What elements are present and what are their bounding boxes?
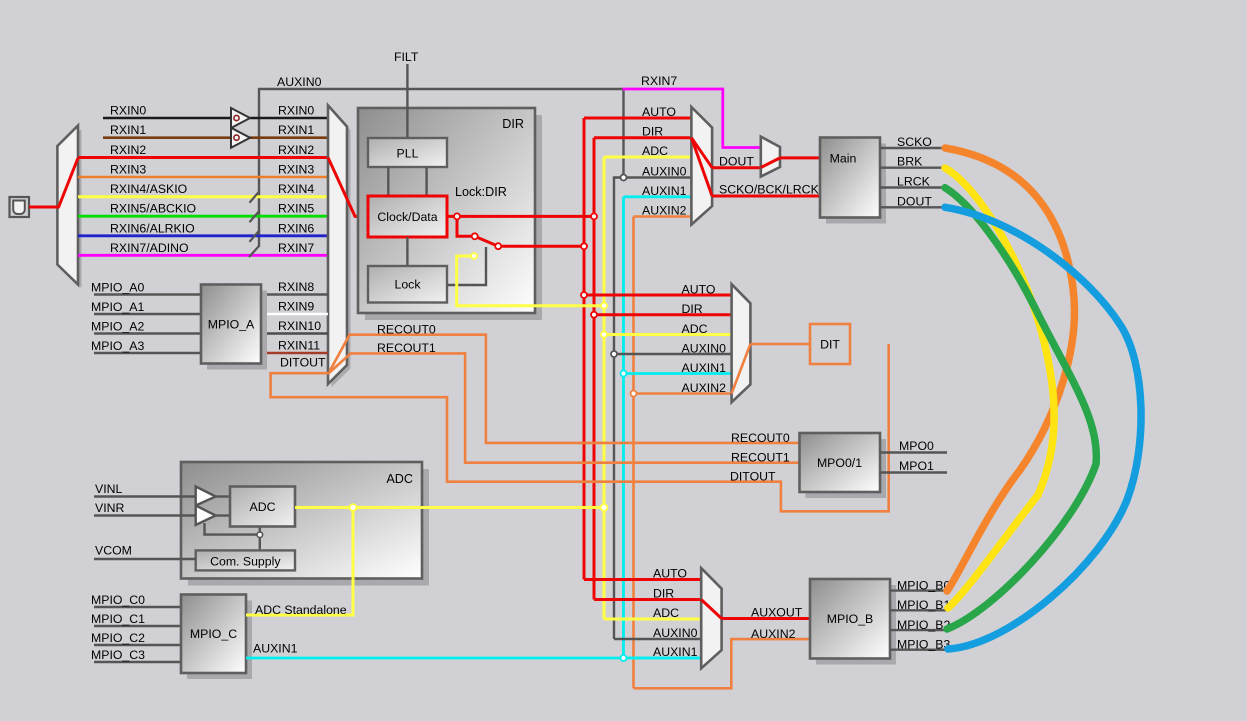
block PLL [368,138,447,167]
mux M3 (DIT source select) [732,284,751,402]
svg-text:Clock/Data: Clock/Data [377,210,437,224]
wire MPIO_A3 input stub [94,352,201,354]
block MPO0/1 [806,439,887,498]
node yellow junction ADC bus at ADC output [601,504,608,511]
node cyan junction AUXIN1 bottom [621,655,627,661]
wire red DOUT row [712,166,761,169]
wire magenta RXIN7 to bypass mux [623,89,762,148]
wire red DIR clock output (Clock/Data to DIR bus) [447,215,594,218]
wire MPIO_A0 input stub [94,293,201,295]
wire RXIN0 row [103,117,231,120]
svg-text:RECOUT0: RECOUT0 [377,323,436,337]
wire RXIN9 row (MPIO_A to mux) [261,313,328,316]
node: open circle on supply line [257,532,263,538]
svg-text:DITOUT: DITOUT [730,470,776,484]
wire red M2 output to Main [780,156,820,159]
wire RECOUT1 from big mux to MPO0/1 [330,353,800,462]
svg-text:MPIO_B1: MPIO_B1 [897,598,950,612]
svg-text:RXIN5: RXIN5 [278,202,314,216]
big input mux (RXIN selector) [332,109,351,387]
svg-text:FILT: FILT [394,50,419,64]
wire RXIN11 row (MPIO_A to mux) [261,352,328,355]
wire MPIO_C0 input stub [94,606,181,608]
wire BRK output stub [880,166,946,168]
svg-text:BRK: BRK [897,155,923,169]
wire AUXIN0 row into top mux [624,176,693,178]
wire VINL amp to ADC core [216,495,231,497]
svg-text:PLL: PLL [397,147,419,161]
wire MPIO_C1 input stub [94,625,181,627]
block Com. Supply [196,550,295,570]
bus red DIR vertical [593,138,596,600]
wire red selected path inside big mux: RXIN2 to DIR input [328,158,368,217]
wire cyan AUXIN1 from MPIO_C to bottom mux [246,657,701,660]
mux M2 (DOUT bypass select) [761,137,780,177]
block ADC (outer) [188,469,429,586]
node yellow junction ADC bus middle mux [601,332,607,338]
svg-text:ADC: ADC [250,500,276,514]
svg-text:DIR: DIR [682,302,703,316]
node orange junction AUXIN2 middle mux [631,391,637,397]
node: yellow open circle near switch [471,253,477,259]
svg-text:Lock: Lock [395,278,422,292]
svg-text:ADC: ADC [682,322,708,336]
svg-text:MPIO_C3: MPIO_C3 [91,648,145,662]
node gray junction AUXIN0 middle mux [611,351,617,357]
svg-text:RXIN10: RXIN10 [278,319,321,333]
wire MPO0 output stub [880,451,947,453]
svg-text:DITOUT: DITOUT [280,356,326,370]
wire DITOUT loop from DIT output to big mux [271,344,889,511]
wire ADC row into bottom mux [604,618,702,621]
wire ADC row into top mux [604,156,692,159]
svg-text:RXIN8: RXIN8 [278,280,314,294]
wire yellow ADC output to bus [295,506,604,509]
svg-text:LRCK: LRCK [897,175,931,189]
node: switch throw circle [495,243,501,249]
bus yellow ADC vertical [603,157,606,619]
svg-text:MPIO_B: MPIO_B [827,612,873,626]
wire FILT to PLL [406,64,408,139]
wire MPIO_A2 input stub [94,332,201,334]
svg-text:AUTO: AUTO [682,283,716,297]
wire red selected inside mux M2 [761,158,780,168]
wire yellow ADC Standalone from MPIO_C [246,508,353,616]
wire red switch branch down [457,216,471,236]
bus orange AUXIN2 vertical [632,217,635,689]
svg-text:MPIO_B3: MPIO_B3 [897,638,950,652]
wire MPIO_C3 input stub [94,661,181,663]
svg-text:RECOUT1: RECOUT1 [731,451,790,465]
node gray junction AUXIN0 top [621,175,627,181]
svg-text:VINR: VINR [95,501,124,515]
wire VINR stub [94,514,196,516]
wire RXIN3 row [78,176,328,179]
svg-text:MPIO_C2: MPIO_C2 [91,631,145,645]
wire thick green loop LRCK to MPIO_B2 [945,188,1096,629]
wire MPIO_B3 output stub [890,649,946,651]
block Lock [368,266,447,303]
svg-text:RXIN4: RXIN4 [278,182,314,196]
svg-text:DIR: DIR [653,586,674,600]
wire VCOM stub [94,558,196,560]
buffer U2 on RXIN0 [231,108,250,128]
wire ADC core to Com. Supply [259,527,261,552]
wire red AUTO output from switch [498,245,584,248]
wire red selected DIR to SCKO inside mux M1 [691,138,712,196]
wire RXIN6 row [78,234,328,237]
node: open circle on Clock/Data output [454,213,460,219]
wire RXIN10 row (MPIO_A to mux) [261,332,328,335]
svg-text:DOUT: DOUT [719,155,754,169]
svg-text:ADC: ADC [653,606,679,620]
svg-text:MPIO_C0: MPIO_C0 [91,593,145,607]
wire AUXIN0 row into bottom mux [614,638,702,640]
wire MPIO_A1 input stub [94,313,201,315]
svg-text:RXIN9: RXIN9 [278,300,314,314]
wire RXIN1 row [103,136,231,139]
wire AUXIN2 row into middle mux [634,392,733,395]
wire AUXIN0 crossover hops [250,192,260,203]
wire AUXIN0 row into middle mux [614,353,732,355]
wire thick orange loop SCKO to MPIO_B0 [945,148,1074,591]
wire red AUXOUT to MPIO_B [722,617,810,620]
svg-text:AUXOUT: AUXOUT [751,606,803,620]
block ADC core [230,487,295,527]
wire red SCKO/BCK/LRCK row [712,195,820,198]
node red junction AUTO bus middle mux [581,292,587,298]
wire VINR amp to ADC core [216,514,231,516]
wire AUXIN0 vertical drop to top mux [622,89,624,178]
svg-text:RXIN1: RXIN1 [278,123,314,137]
svg-text:AUXIN0: AUXIN0 [682,342,727,356]
wire AUXIN1 row into middle mux [624,372,733,375]
svg-text:VCOM: VCOM [95,544,132,558]
node: switch pivot circle [472,233,478,239]
svg-text:AUXIN0: AUXIN0 [653,626,698,640]
block MPIO_A [207,291,267,370]
svg-text:RXIN6: RXIN6 [278,221,314,235]
wire AUTO row into middle mux [584,294,732,297]
mux M4 (AUXOUT select) [701,568,721,668]
svg-text:AUXIN1: AUXIN1 [653,645,698,659]
wire DIR row into top mux [594,136,692,139]
wire amp bias feedback [205,523,258,535]
block DIT [810,324,850,364]
buffer VINR amp [196,506,216,526]
node yellow junction ADC output at standalone [350,504,357,511]
wire MPIO_B2 output stub [890,629,946,631]
svg-text:ADC: ADC [642,144,668,158]
svg-text:AUXIN0: AUXIN0 [642,165,687,179]
wire thick blue loop DOUT to MPIO_B3 [945,207,1141,649]
buffer VINL amp [196,487,216,506]
svg-text:ADC Standalone: ADC Standalone [255,603,347,617]
block DIR (outer) [365,115,542,320]
node cyan junction AUXIN1 middle mux [621,371,627,377]
wire RXIN5 row [78,215,328,218]
wire RXIN8 row (MPIO_A to mux) [261,293,328,295]
svg-text:Main: Main [830,152,857,166]
svg-text:RXIN3: RXIN3 [110,163,146,177]
wire AUTO row into top mux [584,117,692,120]
wire MPO1 output stub [880,471,947,473]
wire LRCK output stub [880,186,946,188]
svg-text:RXIN6/ALRKIO: RXIN6/ALRKIO [110,221,195,235]
wire AUTO row into bottom mux [584,578,702,581]
wire RECOUT0 from big mux to MPO0/1 [330,335,800,443]
node red junction DIR bus middle mux [591,312,597,318]
svg-text:AUXIN2: AUXIN2 [642,204,687,218]
block MPIO_B [816,585,896,665]
wire ADC row into middle mux [604,333,732,336]
svg-text:DOUT: DOUT [897,194,932,208]
svg-text:RXIN7: RXIN7 [641,74,677,88]
input selector trapezoid (left demux) [61,129,82,288]
wire RXIN2 row [78,156,328,159]
wire orange AUXIN2 wrap to MPIO_B [634,639,811,688]
svg-text:SCKO/BCK/LRCK: SCKO/BCK/LRCK [719,183,820,197]
block MPIO_C [187,601,252,680]
wire red: connector to selector, selects RXIN2 [29,158,78,207]
bus red AUTO vertical [583,118,586,580]
svg-text:MPIO_B0: MPIO_B0 [897,578,950,592]
bus gray AUXIN0 vertical [614,178,624,640]
connector J1 (optical input) [10,197,30,217]
wire MPIO_C2 input stub [94,644,181,646]
svg-text:VINL: VINL [95,482,122,496]
svg-text:MPIO_A0: MPIO_A0 [91,281,144,295]
switch SW1 arm (open) [475,236,499,246]
svg-text:SCKO: SCKO [897,135,932,149]
wire AUXIN2 row into top mux [634,215,693,218]
svg-text:RXIN4/ASKIO: RXIN4/ASKIO [110,182,187,196]
svg-text:AUXIN2: AUXIN2 [751,627,796,641]
svg-text:RXIN1: RXIN1 [110,123,146,137]
svg-text:RXIN7/ADINO: RXIN7/ADINO [110,241,189,255]
wire SCKO output stub [880,147,946,149]
svg-text:RXIN5/ABCKIO: RXIN5/ABCKIO [110,202,196,216]
wire PLL to Clock/Data left [387,167,389,197]
svg-text:AUXIN2: AUXIN2 [682,381,727,395]
wire PLL to Clock/Data right [425,167,427,197]
svg-text:MPIO_A1: MPIO_A1 [91,300,144,314]
wire red selected DIR to DOUT inside mux M1 [691,138,712,168]
wire MPIO_B0 output stub [890,589,946,591]
node yellow junction ADC bus at lock line [601,303,607,309]
svg-text:MPIO_A2: MPIO_A2 [91,320,144,334]
svg-text:DIT: DIT [820,338,840,352]
svg-text:RXIN0: RXIN0 [278,104,314,118]
wire DOUT output stub [880,206,946,208]
svg-text:MPO1: MPO1 [899,459,934,473]
wire Lock feedback to switch [447,247,486,285]
bus cyan AUXIN1 vertical [622,197,625,658]
wire AUXIN1 row into top mux [624,195,693,198]
node red junction DIR bus at clock output [591,213,597,219]
wire orange M3 output to DIT [750,343,810,346]
svg-text:MPIO_A3: MPIO_A3 [91,339,144,353]
wire VINL stub [94,495,196,497]
svg-text:MPIO_B2: MPIO_B2 [897,618,950,632]
buffer U3 on RXIN1 [231,128,250,148]
svg-text:RXIN2: RXIN2 [110,143,146,157]
wire yellow Lock sample to ADC bus [457,256,604,306]
wire Clock/Data to Lock [406,237,408,267]
svg-text:RECOUT0: RECOUT0 [731,431,790,445]
svg-text:RXIN2: RXIN2 [278,143,314,157]
svg-text:AUXIN1: AUXIN1 [642,184,687,198]
node red junction AUTO bus at switch output [581,243,587,249]
svg-text:RXIN3: RXIN3 [278,163,314,177]
svg-text:AUXIN1: AUXIN1 [253,642,298,656]
svg-text:Lock:DIR: Lock:DIR [455,185,507,199]
svg-text:MPIO_A: MPIO_A [208,318,255,332]
svg-text:MPO0/1: MPO0/1 [817,456,862,470]
svg-text:MPIO_C1: MPIO_C1 [91,612,145,626]
svg-text:RECOUT1: RECOUT1 [377,341,436,355]
block Main [826,144,886,224]
wire red selected DIR inside mux M4 [701,600,721,619]
svg-text:Com. Supply: Com. Supply [210,554,281,568]
block Clock/Data [368,196,447,237]
mux M1 (main source select) [691,107,712,225]
wire RXIN7 row [78,254,328,257]
wire DIR row into bottom mux [594,598,702,601]
wire thick yellow loop BRK to MPIO_B1 [945,168,1054,608]
svg-text:AUXIN1: AUXIN1 [682,361,727,375]
svg-text:ADC: ADC [386,472,413,486]
svg-text:RXIN7: RXIN7 [278,241,314,255]
svg-text:RXIN11: RXIN11 [278,339,320,353]
svg-text:RXIN0: RXIN0 [110,104,146,118]
wire AUXIN0 top feed [259,89,624,247]
svg-text:AUTO: AUTO [642,105,676,119]
svg-text:DIR: DIR [642,125,663,139]
wire AUXIN1 row into bottom mux [624,657,702,660]
wire DIR row into middle mux [594,313,732,316]
wire MPIO_B1 output stub [890,609,946,611]
svg-text:DIR: DIR [502,117,524,131]
wire RXIN4 row [78,195,328,198]
wire orange selected AUXIN2 inside mux M3 [732,344,751,394]
svg-text:MPO0: MPO0 [899,439,934,453]
svg-text:MPIO_C: MPIO_C [190,627,237,641]
svg-text:AUXIN0: AUXIN0 [277,75,322,89]
svg-text:AUTO: AUTO [653,566,687,580]
